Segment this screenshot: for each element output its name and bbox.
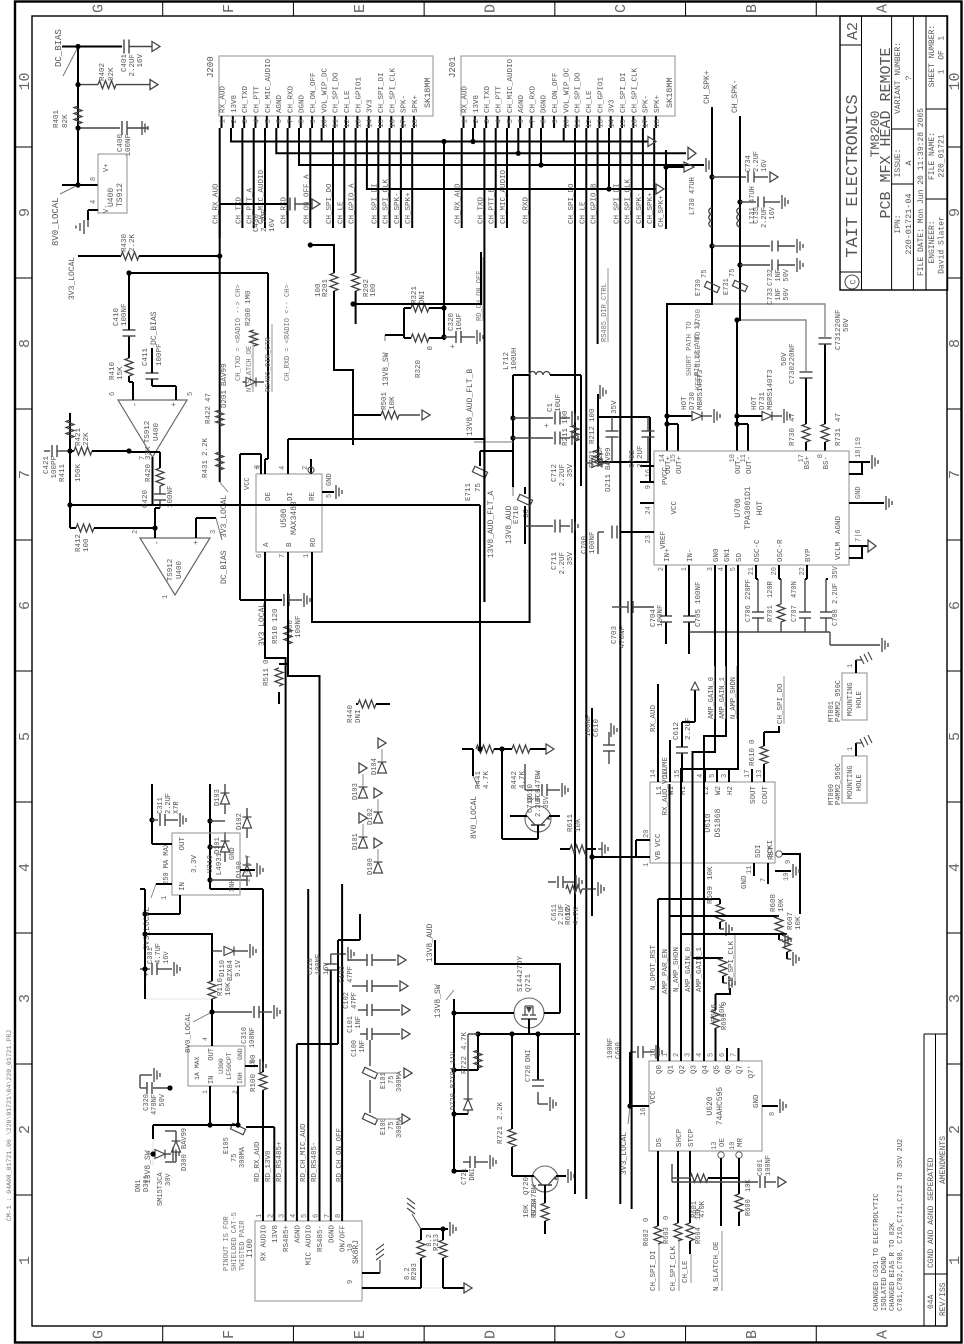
svg-text:75: 75 [729, 269, 737, 277]
U500 pin RO wire [311, 552, 313, 602]
ground up [87, 220, 89, 227]
svg-text:C430: C430 [253, 213, 261, 232]
svg-text:Q720: Q720 [523, 1176, 531, 1195]
svg-text:BYP: BYP [805, 548, 813, 562]
svg-text:CH_MIC_AUDIO: CH_MIC_AUDIO [507, 58, 515, 113]
resistor R421 [70, 450, 74, 452]
svg-text:100: 100 [83, 538, 91, 552]
svg-text:A2: A2 [845, 22, 862, 40]
resistor R410 [128, 376, 130, 382]
resistor R720 [544, 1185, 546, 1196]
svg-text:10K: 10K [225, 982, 233, 996]
resistor R602 [654, 1226, 662, 1244]
wire 13V8 trunk [231, 128, 648, 142]
svg-text:DI: DI [287, 492, 295, 501]
resistor R201 [330, 273, 338, 291]
svg-text:100NF: 100NF [125, 134, 133, 157]
svg-text:CH_ON_OFF: CH_ON_OFF [310, 72, 318, 113]
svg-text:R201: R201 [322, 278, 330, 297]
svg-text:C721: C721 [461, 1168, 469, 1185]
U500 GND stub [322, 491, 334, 493]
J200 pin net label wires [219, 128, 221, 482]
svg-text:CH_SPI_CLK: CH_SPI_CLK [389, 67, 397, 113]
svg-text:1: 1 [161, 896, 169, 900]
svg-text:0: 0 [643, 1218, 651, 1222]
svg-text:CH_LE: CH_LE [682, 1260, 690, 1283]
svg-text:C: C [613, 4, 630, 13]
svg-text:1: 1 [643, 863, 651, 867]
wire Q721 gate [528, 1019, 530, 1034]
diode D211 [586, 462, 592, 464]
svg-text:AGND: AGND [294, 1225, 302, 1244]
svg-text:3V3: 3V3 [609, 99, 617, 113]
svg-text:75: 75 [388, 1076, 396, 1084]
capacitor C703 [612, 606, 628, 608]
svg-text:I100: I100 [246, 1239, 255, 1258]
svg-text:C320: C320 [448, 312, 456, 331]
power flag AGND [150, 80, 158, 90]
svg-text:100NF: 100NF [121, 303, 129, 326]
svg-text:BS-: BS- [823, 456, 831, 470]
svg-text:VCC: VCC [655, 833, 663, 847]
op-amp U400B triangle [118, 400, 187, 457]
svg-text:14: 14 [609, 119, 617, 129]
svg-text:16V: 16V [323, 962, 331, 975]
svg-text:3V3: 3V3 [367, 99, 375, 113]
svg-text:VARIANT NUMBER:: VARIANT NUMBER: [894, 42, 903, 114]
svg-text:120: 120 [272, 608, 280, 622]
resistor R731 [824, 442, 826, 451]
zener diode D110 [212, 950, 222, 952]
svg-text:TS912: TS912 [144, 421, 152, 444]
resistor R600 [738, 1178, 740, 1194]
svg-text:50V: 50V [783, 287, 791, 300]
svg-text:OUT: OUT [208, 1048, 216, 1061]
svg-text:8: 8 [541, 119, 549, 124]
svg-text:9: 9 [785, 860, 793, 864]
svg-text:3: 3 [279, 1214, 287, 1218]
svg-text:A: A [875, 1330, 892, 1339]
capacitor C411 [175, 386, 177, 400]
wire wiper sense [443, 142, 445, 341]
wire Q721 source [454, 1012, 514, 1014]
svg-text:4.7K: 4.7K [483, 771, 491, 790]
svg-text:R430: R430 [121, 233, 129, 252]
svg-text:2.2UF: 2.2UF [685, 717, 693, 740]
resistor R611 [560, 848, 570, 850]
svg-text:R610: R610 [749, 747, 757, 766]
svg-text:Q6: Q6 [725, 1065, 733, 1075]
svg-text:1: 1 [681, 567, 689, 571]
net label CH_SPI_DO [764, 726, 779, 732]
svg-text:10K: 10K [778, 898, 786, 912]
svg-text:Q3: Q3 [691, 1065, 699, 1075]
svg-text:10K: 10K [707, 866, 715, 880]
svg-text:DN1: DN1 [135, 1179, 143, 1192]
IC U700 TPA3001D1 [654, 451, 849, 565]
Q720 emitter gnd [556, 1175, 566, 1177]
svg-text:1NF: 1NF [775, 288, 783, 301]
svg-text:DS: DS [656, 1137, 664, 1147]
svg-text:R422: R422 [205, 406, 213, 424]
svg-text:Q0: Q0 [656, 1065, 664, 1075]
svg-text:5: 5 [249, 1060, 256, 1064]
wire [62, 184, 98, 186]
svg-text:D101: D101 [214, 837, 222, 854]
svg-text:5: 5 [709, 774, 717, 778]
wire bead row [369, 1126, 371, 1210]
svg-text:BS+: BS+ [804, 456, 812, 470]
svg-text:U310: U310 [207, 855, 215, 874]
U500 pin DE wire [264, 459, 266, 474]
svg-text:GND: GND [326, 473, 334, 486]
svg-text:E: E [352, 1330, 369, 1339]
svg-text:HOLE: HOLE [856, 774, 864, 791]
zener D720 [454, 1113, 468, 1115]
svg-text:47: 47 [835, 413, 843, 422]
svg-text:D101: D101 [352, 833, 360, 850]
resistor R609 [658, 898, 720, 900]
svg-text:16V: 16V [137, 54, 145, 68]
svg-text:U400: U400 [176, 561, 184, 580]
capacitor C102 [366, 980, 368, 992]
wire W1 volume [669, 740, 671, 782]
U620 GND pin [762, 1105, 778, 1107]
svg-text:SM15T3CA: SM15T3CA [157, 1172, 165, 1206]
svg-text:RX_AUD: RX_AUD [650, 704, 658, 732]
svg-text:1NF: 1NF [359, 1040, 367, 1053]
resistor R412 [70, 527, 76, 529]
capacitor C712 [513, 437, 553, 439]
svg-text:CH_SPI_DO: CH_SPI_DO [575, 72, 583, 113]
capacitor C705 [688, 622, 690, 654]
svg-text:20: 20 [643, 830, 651, 838]
svg-text:SCKI: SCKI [767, 840, 775, 858]
svg-text:16V: 16V [565, 903, 573, 916]
junction dots RX bus [207, 818, 212, 823]
svg-text:E710: E710 [513, 505, 521, 524]
U310 OUT wire [152, 843, 172, 845]
svg-text:1: 1 [256, 1214, 264, 1218]
svg-text:C734: C734 [745, 155, 753, 172]
svg-text:CH_RXD = <RADIO <-- CH>: CH_RXD = <RADIO <-- CH> [284, 284, 292, 381]
svg-text:10K: 10K [719, 1004, 727, 1018]
U300 INH wire [237, 1086, 239, 1125]
svg-text:1: 1 [162, 595, 170, 599]
svg-text:50V: 50V [159, 1093, 167, 1106]
svg-text:22: 22 [799, 567, 807, 575]
svg-text:9: 9 [947, 208, 964, 217]
wire DE row [267, 273, 269, 459]
svg-text:2.2K: 2.2K [129, 233, 137, 252]
svg-text:220NF: 220NF [789, 343, 797, 366]
svg-text:1: 1 [303, 554, 311, 558]
svg-text:C401: C401 [121, 54, 129, 73]
wire U500 B to RS485- [288, 602, 320, 716]
svg-text:C730: C730 [789, 365, 797, 384]
svg-text:6: 6 [109, 392, 117, 396]
svg-text:CH_ON_OFF: CH_ON_OFF [552, 72, 560, 113]
U700 GND pin [849, 502, 884, 504]
svg-text:INH: INH [229, 879, 237, 892]
svg-text:3: 3 [947, 994, 964, 1003]
wire 13V8_SW rail [153, 1124, 230, 1126]
wire L1 RX_AUD [657, 684, 659, 782]
svg-text:R600: R600 [745, 1199, 753, 1216]
svg-text:F: F [221, 4, 238, 13]
resistor R511 [279, 663, 288, 665]
svg-text:CH_LE: CH_LE [586, 90, 594, 113]
wire OUT+ pins [666, 416, 668, 451]
svg-text:IN: IN [179, 882, 187, 891]
svg-text:14: 14 [650, 770, 658, 778]
svg-text:150K: 150K [75, 464, 83, 483]
svg-text:Q1: Q1 [668, 1065, 676, 1075]
wire H1 C612 [681, 753, 683, 782]
svg-text:GN0: GN0 [713, 548, 721, 562]
wire FLT_B rail [580, 375, 582, 486]
svg-text:G: G [90, 1330, 107, 1339]
svg-text:R609: R609 [707, 886, 715, 904]
svg-text:GND: GND [237, 1048, 244, 1060]
svg-text:4: 4 [17, 863, 34, 872]
svg-text:100NF: 100NF [657, 604, 665, 627]
svg-text:100: 100 [370, 283, 378, 297]
svg-text:16: 16 [631, 119, 639, 129]
wire RX to bus [210, 888, 263, 890]
svg-text:D110: D110 [219, 960, 227, 977]
svg-text:3.3V: 3.3V [191, 855, 199, 874]
svg-text:5: 5 [947, 732, 964, 741]
svg-text:9: 9 [310, 119, 318, 124]
svg-text:INH: INH [237, 1072, 244, 1084]
svg-text:35V: 35V [543, 795, 551, 808]
svg-text:1: 1 [662, 1053, 670, 1057]
wire RD_CH_ON_OFF [353, 252, 481, 304]
svg-text:E: E [352, 4, 369, 13]
capacitor C733 [737, 262, 742, 267]
svg-text:R608: R608 [770, 894, 778, 912]
svg-text:2.2UF: 2.2UF [535, 796, 543, 817]
svg-text:L730 47UH: L730 47UH [689, 177, 697, 215]
svg-text:12: 12 [344, 119, 352, 128]
svg-text:PINOUT IS FOR: PINOUT IS FOR [223, 1216, 231, 1271]
wire pin4 V- to gnd [88, 209, 98, 211]
wire 13V8 up bead [246, 1126, 274, 1128]
svg-text:10: 10 [563, 119, 571, 129]
svg-text:CH_RXD: CH_RXD [529, 85, 537, 113]
capacitor C401 [123, 40, 125, 54]
svg-text:3: 3 [17, 994, 34, 1003]
svg-text:Q7: Q7 [737, 1065, 745, 1074]
capacitor C610 [603, 750, 615, 752]
wire CH_LE j201 ext [585, 1004, 587, 1199]
svg-text:3V3_LOCAL: 3V3_LOCAL [620, 1132, 629, 1175]
svg-text:FILE NAME:: FILE NAME: [928, 132, 937, 180]
svg-text:7: 7 [17, 470, 34, 479]
capacitor C600 [627, 1103, 632, 1108]
svg-text:100NF: 100NF [765, 1155, 773, 1176]
svg-text:C735: C735 [753, 207, 761, 224]
svg-text:V-: V- [103, 205, 111, 213]
svg-text:50V: 50V [783, 268, 791, 281]
svg-text:4: 4 [495, 119, 503, 124]
title block [840, 16, 948, 290]
wire RST [792, 854, 800, 914]
svg-text:8.2: 8.2 [426, 1234, 434, 1247]
svg-text:4: 4 [90, 200, 98, 204]
wire DGND trunk [299, 128, 541, 165]
svg-text:CH_ON_OFF_A: CH_ON_OFF_A [303, 174, 311, 224]
svg-text:STCP: STCP [688, 1128, 696, 1147]
chassis earth marks [407, 1208, 415, 1214]
U500 pin B wire [287, 552, 289, 602]
svg-text:16: 16 [640, 1108, 648, 1116]
svg-text:8.2: 8.2 [404, 1267, 412, 1280]
U300 GND stub [245, 1065, 258, 1067]
svg-text:C612: C612 [673, 722, 681, 740]
svg-text:HOT: HOT [756, 501, 765, 516]
svg-text:18: 18 [412, 119, 420, 128]
svg-text:RO: RO [310, 537, 318, 547]
svg-text:OSC-R: OSC-R [777, 539, 785, 562]
svg-text:R442: R442 [511, 771, 519, 789]
U500 pin A wire [264, 552, 266, 602]
svg-text:C720: C720 [525, 1065, 533, 1082]
capacitor C730 [800, 377, 813, 379]
wire rails top gnd [597, 417, 599, 462]
svg-text:1NF: 1NF [775, 269, 783, 282]
svg-text:8V0_LOCAL: 8V0_LOCAL [51, 197, 61, 246]
svg-text:CH_SPI_CLK: CH_SPI_CLK [670, 1245, 678, 1291]
svg-text:10: 10 [347, 1244, 355, 1252]
svg-text:CH_SPI_DI: CH_SPI_DI [620, 72, 628, 113]
svg-text:R501: R501 [381, 391, 389, 410]
svg-text:16V: 16V [761, 159, 769, 172]
resistor R501b [352, 415, 354, 445]
ferrite bead E105 [230, 1123, 245, 1134]
svg-text:+: + [449, 344, 458, 349]
svg-text:3: 3 [685, 1053, 693, 1057]
capacitor C611 [548, 881, 556, 883]
svg-text:RD_CH_MIC_AUD: RD_CH_MIC_AUD [300, 1123, 308, 1182]
svg-text:13V8: 13V8 [272, 1225, 280, 1243]
svg-text:10K: 10K [575, 818, 583, 832]
svg-text:2.2K: 2.2K [497, 1101, 505, 1120]
svg-text:1A MAX: 1A MAX [194, 1056, 201, 1080]
svg-text:-: - [131, 402, 140, 407]
svg-text:MOUNTING: MOUNTING [847, 682, 855, 716]
capacitor C708 [825, 618, 827, 632]
svg-text:5: 5 [265, 119, 273, 124]
capacitor C720 [535, 1031, 540, 1036]
svg-text:TAIT ELECTRONICS: TAIT ELECTRONICS [844, 94, 863, 257]
svg-text:9.1V: 9.1V [235, 959, 243, 977]
wire 13V8_AUD rail [512, 378, 514, 487]
wire AGND trunk down [518, 152, 686, 154]
svg-text:+: + [543, 423, 552, 428]
svg-text:PCB MFX HEAD REMOTE: PCB MFX HEAD REMOTE [878, 47, 895, 218]
svg-text:2.2UF: 2.2UF [637, 445, 645, 468]
svg-text:10K: 10K [523, 1204, 531, 1218]
svg-text:TPA3001D1: TPA3001D1 [744, 486, 753, 529]
svg-text:BZX84: BZX84 [450, 1067, 458, 1088]
svg-text:4: 4 [718, 567, 726, 571]
U610 GND pin [775, 870, 791, 872]
diode D731 [737, 415, 762, 417]
resistor R440 [356, 703, 358, 705]
svg-text:LF50CPT: LF50CPT [226, 1052, 233, 1079]
svg-text:C311: C311 [157, 797, 165, 814]
svg-text:U700: U700 [734, 498, 743, 517]
svg-text:75: 75 [231, 1154, 239, 1162]
svg-text:3V3_LOCAL: 3V3_LOCAL [220, 495, 229, 538]
ferrite bead E710 [517, 494, 532, 505]
svg-text:DNI: DNI [469, 1168, 477, 1181]
svg-text:74AHC595: 74AHC595 [716, 1087, 725, 1126]
svg-text:CM-1 : 04A08_01721.06 \220\017: CM-1 : 04A08_01721.06 \220\01721\04\220_… [6, 1030, 13, 1221]
svg-text:12: 12 [586, 119, 594, 128]
U300 OUT wire [211, 999, 213, 1046]
svg-text:22K: 22K [83, 432, 91, 446]
U500 pin DI wire [287, 439, 289, 474]
resistor R320 [411, 334, 429, 342]
wire R431 to C430 [219, 204, 221, 238]
svg-text:470K: 470K [699, 1200, 707, 1218]
svg-text:C: C [850, 279, 859, 284]
svg-text:2.2UF: 2.2UF [761, 207, 769, 228]
svg-text:CH_LE: CH_LE [344, 90, 352, 113]
svg-text:D: D [482, 1330, 499, 1339]
svg-text:SPK+: SPK+ [654, 94, 662, 113]
svg-text:OUT: OUT [179, 837, 187, 851]
svg-text:CH_PTT: CH_PTT [253, 85, 261, 113]
svg-text:100: 100 [589, 408, 597, 422]
svg-text:D730: D730 [689, 391, 697, 410]
svg-text:A: A [263, 542, 271, 547]
capacitor C732 [709, 243, 714, 248]
svg-text:220_01721: 220_01721 [938, 134, 947, 177]
svg-text:SPK-: SPK- [643, 95, 651, 113]
svg-text:SI4427DY: SI4427DY [517, 955, 525, 992]
svg-text:C301: C301 [147, 947, 155, 964]
svg-text:CH_SPK+: CH_SPK+ [405, 192, 413, 224]
svg-text:13V8: 13V8 [473, 95, 481, 113]
capacitor C700 [620, 531, 640, 533]
svg-text:C600: C600 [615, 1042, 623, 1059]
svg-text:9: 9 [347, 1280, 355, 1284]
svg-text:MOUNTING: MOUNTING [847, 765, 855, 799]
junction [75, 82, 80, 87]
svg-text:8V0_LOCAL: 8V0_LOCAL [470, 796, 479, 839]
svg-text:Q2: Q2 [679, 1065, 687, 1074]
svg-text:6: 6 [313, 1214, 321, 1218]
svg-text:100NF: 100NF [589, 531, 597, 554]
svg-text:R420: R420 [145, 463, 153, 482]
svg-text:17: 17 [744, 770, 752, 778]
svg-text:C102: C102 [343, 992, 351, 1009]
U700 PGND pins [849, 462, 862, 474]
svg-text:13: 13 [597, 119, 605, 129]
svg-text:300MA: 300MA [239, 1146, 247, 1168]
wire [69, 420, 71, 528]
U620 VCC pin [630, 1105, 649, 1107]
svg-text:75: 75 [388, 1122, 396, 1130]
wire OUT+ to filter [667, 107, 712, 416]
wire arrow [682, 721, 695, 723]
U610 VB VCC stubs [636, 856, 650, 858]
svg-text:RS485-: RS485- [317, 1225, 325, 1252]
